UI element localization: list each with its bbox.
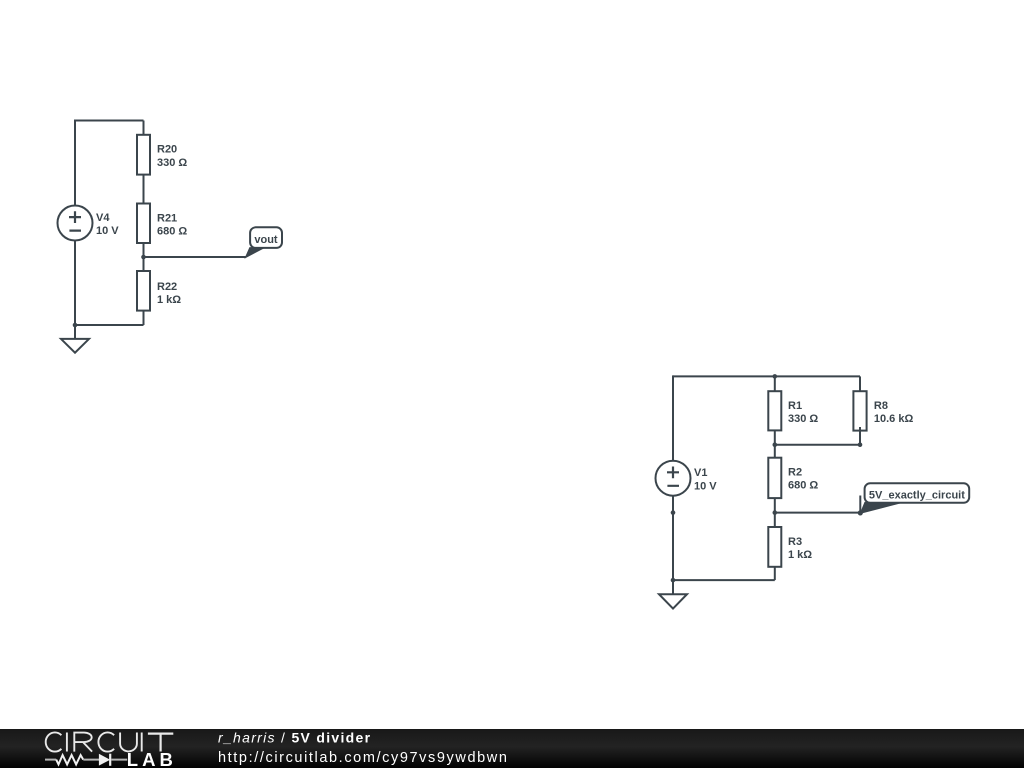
wire R21 to node vout: [143, 243, 145, 271]
svg-text:R21: R21: [157, 212, 177, 224]
wire left vertical upper: [74, 120, 76, 206]
wire V1 upper lead: [672, 375, 674, 460]
voltage source V4: [58, 206, 93, 241]
wire R3 top lead: [774, 513, 776, 527]
svg-text:R2: R2: [788, 467, 802, 479]
label R1 330 ohm: [788, 400, 818, 425]
svg-text:680 Ω: 680 Ω: [788, 480, 818, 492]
label R22 1 kohm: [157, 281, 181, 306]
node junction dot top right: [773, 374, 778, 379]
wire bottom left: [74, 324, 144, 326]
logo resistor-diode line: [45, 754, 127, 766]
svg-text:LAB: LAB: [127, 749, 177, 768]
label R20 330 ohm: [157, 144, 187, 169]
ground left: [61, 325, 89, 353]
label R21 680 ohm: [157, 212, 187, 237]
wire left vertical lower: [74, 241, 76, 326]
node junction dot ground left: [73, 323, 78, 328]
svg-text:V4: V4: [96, 212, 110, 224]
svg-text:1 kΩ: 1 kΩ: [788, 549, 812, 561]
node junction dot V1 lower: [671, 510, 676, 515]
svg-text:R22: R22: [157, 281, 177, 293]
wire middle R1-R8: [775, 444, 860, 446]
resistor R21: [137, 204, 150, 244]
svg-text:r_harris / 5V divider: r_harris / 5V divider: [218, 729, 371, 745]
resistor R22: [137, 271, 150, 311]
svg-text:R3: R3: [788, 536, 802, 548]
wire bottom right: [672, 579, 775, 581]
flag vout: [245, 227, 282, 257]
label V1 10 V: [694, 467, 717, 492]
resistor R2: [768, 458, 781, 498]
svg-text:R20: R20: [157, 144, 177, 156]
node anchor dot 5V flag: [858, 510, 863, 515]
svg-text:vout: vout: [254, 234, 278, 246]
wire R3 bottom lead: [774, 567, 776, 580]
svg-text:10 V: 10 V: [96, 225, 119, 237]
ground right: [659, 580, 687, 609]
resistor R1: [768, 391, 781, 430]
wire R22 bottom lead: [143, 311, 145, 325]
wire node to vout flag: [144, 256, 246, 258]
svg-text:680 Ω: 680 Ω: [157, 226, 187, 238]
node junction dot bottom right: [671, 578, 676, 583]
wire node to 5V flag: [775, 512, 861, 514]
wire R2 bottom lead: [774, 498, 776, 512]
logo CIRCUIT letters: [46, 732, 174, 751]
svg-text:R8: R8: [874, 400, 888, 412]
wire top left loop: [75, 120, 144, 122]
node junction dot mid left: [773, 442, 778, 447]
voltage source V1: [656, 461, 691, 496]
svg-text:330 Ω: 330 Ω: [157, 157, 187, 169]
resistor R20: [137, 135, 150, 175]
svg-text:10 V: 10 V: [694, 480, 717, 492]
svg-text:V1: V1: [694, 467, 707, 479]
wire R20-R21: [143, 175, 145, 204]
resistor R8: [853, 391, 866, 445]
svg-text:1 kΩ: 1 kΩ: [157, 294, 181, 306]
label R8 10.6 kohm: [874, 400, 914, 425]
wire V1 lower lead: [672, 496, 674, 580]
svg-text:330 Ω: 330 Ω: [788, 413, 818, 425]
svg-text:http://circuitlab.com/cy97vs9y: http://circuitlab.com/cy97vs9ywdbwn: [218, 750, 509, 766]
footer bar: [0, 729, 1024, 768]
node junction dot vout: [141, 255, 146, 260]
wire R8 top lead: [859, 376, 861, 391]
wire R1 top lead: [774, 376, 776, 391]
node junction dot mid right R8: [858, 442, 863, 447]
label R3 1 kohm: [788, 536, 812, 561]
svg-text:R1: R1: [788, 400, 802, 412]
svg-text:10.6 kΩ: 10.6 kΩ: [874, 413, 914, 425]
flag 5V_exactly_circuit: [860, 483, 969, 513]
wire R2 top lead: [774, 445, 776, 458]
wire R20 top lead: [143, 121, 145, 135]
label R2 680 ohm: [788, 467, 818, 492]
svg-text:5V_exactly_circuit: 5V_exactly_circuit: [869, 489, 965, 501]
wire 5V flag stub: [859, 496, 861, 513]
resistor R3: [768, 527, 781, 567]
wire top right loop: [672, 375, 860, 580]
wire R1 bottom lead: [774, 430, 776, 444]
label V4 10 V: [96, 212, 119, 237]
node junction dot 5V node: [773, 510, 778, 515]
